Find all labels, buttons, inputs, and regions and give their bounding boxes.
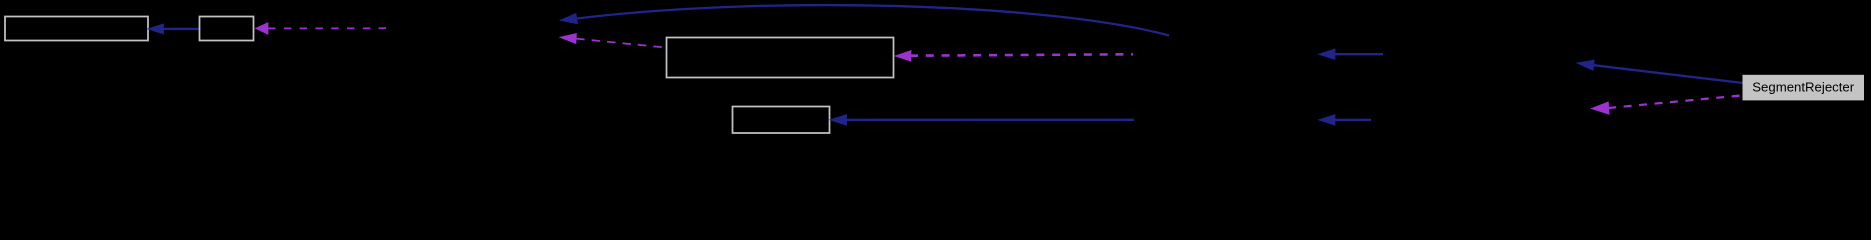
long inheritance curve arrow to hidden node [560,5,1169,35]
usage dashed arrow from box3 to hidden node [560,34,666,48]
usage dashed arrow from SegmentRejecter down-left [1591,95,1743,114]
inheritance arrow stub lower right [1319,115,1372,126]
node SegmentRejecter (current class, grey filled) [1743,75,1864,100]
usage dashed arrow into box2 [256,23,387,35]
node box1 (top-left empty class box) [5,17,148,41]
inheritance arrow box2 to box1 [148,24,199,34]
node box3 (large empty class box) [667,38,894,78]
inheritance arrow into box4 [830,115,1134,126]
inheritance arrow from SegmentRejecter up-left [1577,60,1743,83]
node box4 (small empty class box bottom middle) [733,107,830,134]
node box2 (small empty class box) [200,17,254,41]
svg-text:SegmentRejecter: SegmentRejecter [1752,80,1854,95]
inheritance arrow stub upper right [1319,49,1384,60]
usage dashed arrow into box3 right side [895,51,1133,62]
